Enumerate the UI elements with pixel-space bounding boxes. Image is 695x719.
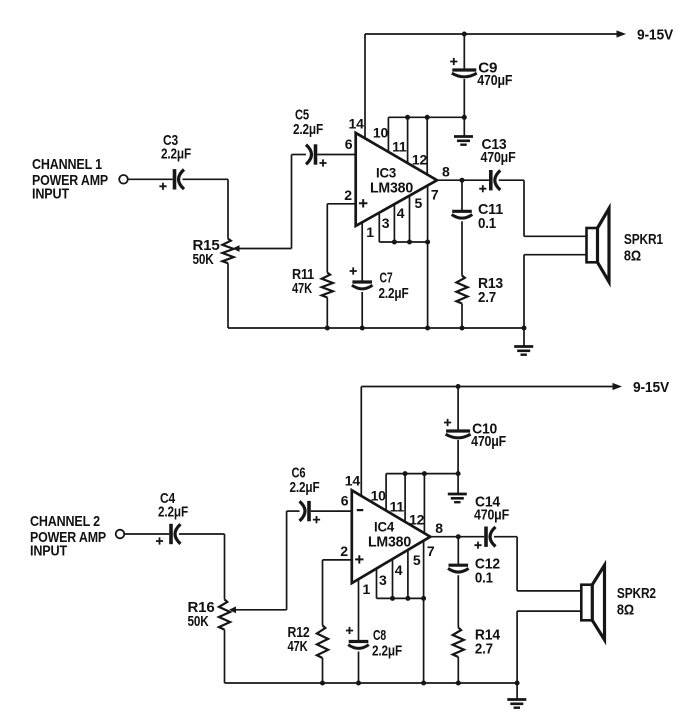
svg-text:2.7: 2.7 <box>475 641 493 658</box>
junction <box>462 115 467 120</box>
svg-text:12: 12 <box>409 512 425 528</box>
capacitor C14 <box>484 527 488 547</box>
wire pin 2 input <box>323 559 352 561</box>
ground <box>523 328 525 347</box>
svg-text:7: 7 <box>431 187 439 203</box>
svg-text:2.2μF: 2.2μF <box>293 121 323 138</box>
wire <box>423 598 425 683</box>
wire <box>322 560 324 625</box>
wire pin 1 <box>358 579 360 641</box>
wiper arrow of R15 <box>233 245 240 252</box>
wire <box>499 179 524 181</box>
capacitor C9 <box>463 34 465 70</box>
svg-text:5: 5 <box>413 552 421 568</box>
capacitor C8 <box>349 640 369 643</box>
wire <box>516 611 518 683</box>
svg-text:8: 8 <box>435 520 443 536</box>
wire <box>322 658 324 683</box>
junction <box>460 326 465 331</box>
resistor R16 potentiometer <box>219 599 230 629</box>
resistor R13 <box>456 276 467 304</box>
svg-text:IC4: IC4 <box>374 519 394 535</box>
wire <box>461 221 463 275</box>
wire pin 14 <box>360 387 362 496</box>
wire pin 4 <box>393 204 395 242</box>
svg-text:2.2μF: 2.2μF <box>290 479 320 496</box>
svg-text:50K: 50K <box>188 613 209 630</box>
wire <box>286 511 288 610</box>
wire pin 5 <box>407 550 409 599</box>
svg-text:2: 2 <box>344 187 352 203</box>
svg-text:7: 7 <box>427 543 435 559</box>
wire bypass bus pins 10-12 <box>388 116 464 118</box>
svg-text:10: 10 <box>371 487 387 503</box>
svg-text:1: 1 <box>363 581 371 597</box>
svg-text:C7: C7 <box>380 270 393 287</box>
capacitor C4 <box>169 524 173 544</box>
svg-text:47K: 47K <box>292 280 312 297</box>
wire speaker + <box>517 590 581 592</box>
wire <box>326 298 328 329</box>
svg-text:0.1: 0.1 <box>478 215 496 232</box>
svg-text:SPKR2: SPKR2 <box>617 585 656 602</box>
junction <box>325 326 330 331</box>
svg-text:8: 8 <box>442 164 450 180</box>
svg-text:SPKR1: SPKR1 <box>624 231 663 248</box>
svg-text:2.2μF: 2.2μF <box>379 285 409 302</box>
svg-text:2.2μF: 2.2μF <box>372 643 402 660</box>
svg-text:4: 4 <box>397 205 405 221</box>
wire <box>457 575 459 627</box>
ground <box>457 474 459 494</box>
wire pin 12 <box>423 474 425 534</box>
junction <box>456 534 461 539</box>
svg-text:C8: C8 <box>373 627 386 644</box>
svg-text:6: 6 <box>341 493 349 509</box>
wire <box>523 180 525 236</box>
wire speaker - <box>524 254 587 256</box>
wire bypass bus pins 10-12 <box>386 473 458 475</box>
svg-text:50K: 50K <box>193 251 214 268</box>
capacitor C3 <box>173 169 177 189</box>
capacitor C10 <box>457 387 459 432</box>
wire pin 3 <box>378 213 380 242</box>
junction <box>356 681 361 686</box>
svg-text:LM380: LM380 <box>368 535 411 551</box>
resistor R14 <box>453 628 464 657</box>
junction <box>460 178 465 183</box>
svg-text:10: 10 <box>373 124 389 140</box>
wire pin 10 <box>387 117 389 152</box>
junction <box>360 326 365 331</box>
wire <box>124 533 169 535</box>
svg-text:CHANNEL 2: CHANNEL 2 <box>30 513 100 530</box>
wire ground bus pins 3-5,7 <box>377 597 424 599</box>
wire <box>128 178 173 180</box>
svg-text:INPUT: INPUT <box>30 543 67 560</box>
junction <box>462 32 467 37</box>
svg-text:5: 5 <box>415 195 423 211</box>
svg-text:1: 1 <box>366 224 374 240</box>
wire pin 3 <box>376 569 378 599</box>
ground <box>463 117 465 136</box>
junction <box>425 326 430 331</box>
svg-text:2.7: 2.7 <box>478 289 496 306</box>
op-amp IC3 LM380 <box>356 133 437 226</box>
speaker SPKR2 <box>581 585 592 621</box>
wire <box>457 657 459 683</box>
power rail 9-15V <box>361 386 614 388</box>
svg-text:470μF: 470μF <box>477 72 512 89</box>
wire pin 4 <box>392 559 394 598</box>
ground <box>516 683 518 700</box>
svg-text:12: 12 <box>412 152 428 168</box>
wire pin 7 <box>427 186 429 243</box>
junction <box>456 471 461 476</box>
wire <box>287 510 300 512</box>
capacitor C6 <box>300 501 306 521</box>
wire pin 6 input <box>311 510 352 512</box>
svg-text:9-15V: 9-15V <box>637 27 673 44</box>
svg-text:CHANNEL 1: CHANNEL 1 <box>32 156 102 173</box>
junction <box>320 681 325 686</box>
svg-text:9-15V: 9-15V <box>633 379 669 396</box>
node CHANNEL 1 input terminal <box>119 175 128 184</box>
wire pin 5 <box>409 196 411 242</box>
wire pin 14 <box>364 34 366 138</box>
junction <box>421 681 426 686</box>
wire pin 11 <box>407 117 409 163</box>
wiper arrow of R16 <box>229 606 236 613</box>
node CHANNEL 2 input terminal <box>116 530 125 539</box>
wire <box>463 79 465 117</box>
wire <box>292 154 307 156</box>
junction <box>522 326 527 331</box>
svg-text:0.1: 0.1 <box>475 570 493 587</box>
wire pin 11 <box>404 474 406 522</box>
wire <box>461 180 463 211</box>
capacitor C13 <box>489 170 493 190</box>
svg-text:11: 11 <box>392 138 407 154</box>
wire pin 8 output <box>430 536 484 538</box>
wire pin 12 <box>426 117 428 174</box>
wire <box>523 255 525 328</box>
svg-text:2.2μF: 2.2μF <box>161 146 191 163</box>
capacitor C12 <box>449 564 469 567</box>
wire <box>461 304 463 329</box>
speaker SPKR1 <box>587 228 598 262</box>
capacitor C11 <box>452 210 472 213</box>
wire ground bus pins 3-5,7 <box>379 241 427 243</box>
power rail 9-15V <box>365 33 618 35</box>
wire <box>291 155 293 249</box>
wire <box>516 537 518 591</box>
resistor R12 <box>317 625 328 658</box>
wire <box>179 533 225 535</box>
junction <box>515 681 520 686</box>
svg-text:8Ω: 8Ω <box>624 248 641 265</box>
svg-text:470μF: 470μF <box>474 507 509 524</box>
resistor R11 <box>322 273 333 298</box>
svg-text:IC3: IC3 <box>376 165 396 181</box>
wire <box>224 534 226 599</box>
svg-text:470μF: 470μF <box>481 149 516 166</box>
ground rail <box>227 263 229 328</box>
wire pin 7 <box>423 541 425 599</box>
wire speaker - <box>517 610 581 612</box>
junction <box>456 384 461 389</box>
svg-text:6: 6 <box>345 136 353 152</box>
wire pin 1 <box>361 222 363 282</box>
wire <box>358 652 360 684</box>
wire pin 10 <box>385 474 387 511</box>
svg-text:3: 3 <box>382 215 390 231</box>
svg-text:4: 4 <box>395 562 403 578</box>
op-amp IC4 LM380 <box>352 490 431 583</box>
junction <box>456 681 461 686</box>
wire <box>427 242 429 328</box>
wire <box>326 204 328 273</box>
ground rail <box>224 630 226 683</box>
svg-text:14: 14 <box>345 472 361 488</box>
svg-text:2.2μF: 2.2μF <box>158 504 188 521</box>
svg-text:2: 2 <box>340 543 348 559</box>
svg-text:INPUT: INPUT <box>32 186 69 203</box>
resistor R15 potentiometer <box>222 239 233 264</box>
wire <box>494 536 517 538</box>
svg-text:11: 11 <box>390 499 405 515</box>
capacitor C5 <box>306 145 312 165</box>
capacitor C7 <box>352 280 372 283</box>
svg-text:470μF: 470μF <box>471 433 506 450</box>
svg-text:14: 14 <box>349 116 365 132</box>
svg-text:3: 3 <box>379 572 387 588</box>
wire <box>227 179 229 238</box>
wire pin 6 input <box>317 154 355 156</box>
wire pin 8 output <box>437 179 489 181</box>
wire <box>457 440 459 474</box>
svg-text:LM380: LM380 <box>370 181 413 197</box>
svg-text:8Ω: 8Ω <box>617 602 634 619</box>
wire <box>457 537 459 566</box>
wire speaker + <box>524 235 587 237</box>
wire <box>183 178 229 180</box>
wire pin 2 input <box>327 203 355 205</box>
wire <box>361 292 363 328</box>
svg-text:47K: 47K <box>288 638 308 655</box>
